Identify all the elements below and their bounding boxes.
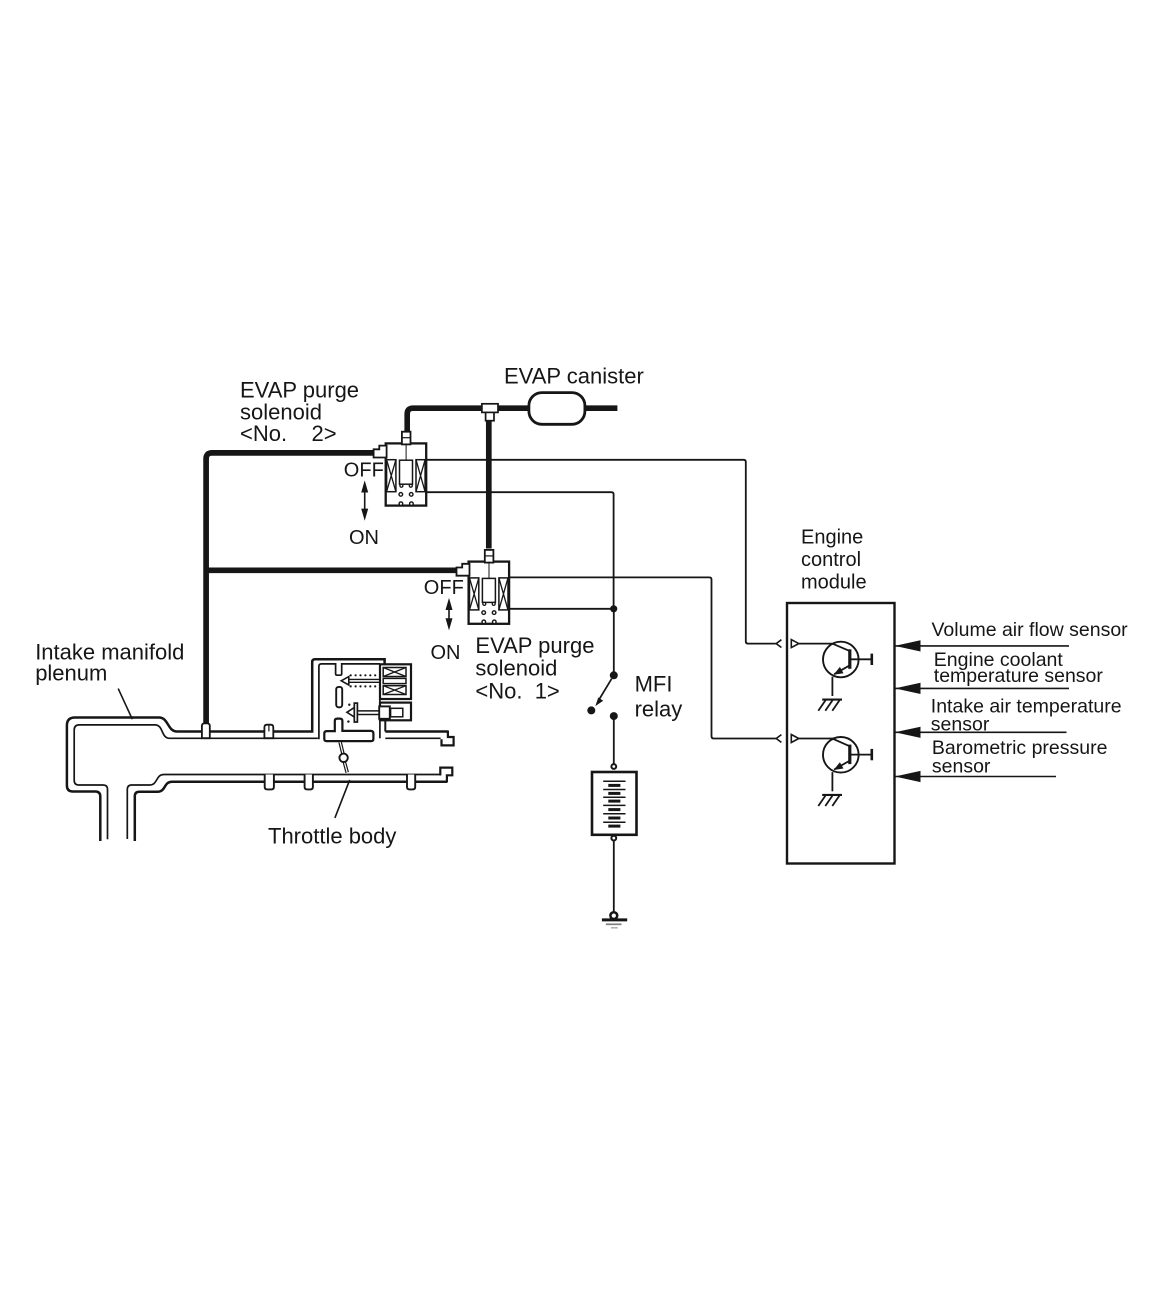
svg-text:ON: ON <box>349 527 379 549</box>
label: EVAP purge solenoid No.1 <box>475 633 594 704</box>
svg-text:Engine: Engine <box>801 527 863 549</box>
OFF/ON double arrow (solenoid No.2) <box>361 480 368 520</box>
ground (Q1 emitter) <box>818 700 842 711</box>
label: Engine coolant temperature sensor <box>934 649 1104 687</box>
sensor input arrow: Volume air flow sensor <box>895 640 1070 651</box>
wire: solenoid No.1 upper terminal to ECM input 2 <box>509 577 776 738</box>
IAC pintle valve (cone + disc + stem) <box>347 703 380 722</box>
svg-text:plenum: plenum <box>35 660 107 685</box>
manifold nipple (capped, x=269) <box>264 725 273 739</box>
hose: solenoid No.1 port joining vertical hose <box>206 567 457 573</box>
throttle body / IAC housing outer wall <box>312 659 384 733</box>
wire: solenoid No.1 lower terminal to junction node <box>509 608 613 610</box>
svg-text:Volume air flow sensor: Volume air flow sensor <box>932 619 1129 641</box>
transistor Q2 (lower driver) <box>799 737 872 791</box>
svg-text:OFF: OFF <box>424 577 464 599</box>
intake manifold plenum outer wall (top/left/floor) and duct outer top wall <box>67 718 454 842</box>
manifold nipple (hose connection, x=206) <box>202 723 210 738</box>
hose: solenoid No.2 port to manifold nipple (down at x=206) <box>206 453 375 723</box>
IAC motor lower block <box>379 703 411 721</box>
leader line: Intake manifold plenum <box>118 689 132 720</box>
svg-text:temperature sensor: temperature sensor <box>934 665 1104 687</box>
ground (Q2 emitter) <box>818 795 842 806</box>
label: MFI relay <box>635 671 683 721</box>
label: Intake air temperature sensor <box>931 696 1122 736</box>
plenum inner wall (top/left/floor) and duct inner top wall <box>74 725 318 839</box>
svg-text:module: module <box>801 572 867 594</box>
duct top wall right of throttle housing <box>385 730 448 733</box>
bypass passage dotted flow lines (upper) <box>347 674 376 723</box>
sensor input arrow: Barometric pressure sensor <box>895 771 1057 782</box>
junction node (dot) <box>610 605 617 612</box>
MFI relay coil (hatched box with terminals) <box>592 764 637 840</box>
connector chevron (input 1) <box>776 640 781 648</box>
throttle bore T-island (shaft boss) <box>324 719 373 742</box>
svg-text:EVAP purge: EVAP purge <box>475 633 594 658</box>
duct upper-right end hook <box>442 731 454 746</box>
svg-text:relay: relay <box>635 697 683 722</box>
svg-text:EVAP canister: EVAP canister <box>504 363 644 388</box>
hose: canister T-drop down to solenoid No.1 nozzle <box>486 410 492 549</box>
svg-text:MFI: MFI <box>635 671 673 696</box>
IAC stepper motor coil block <box>380 664 411 699</box>
svg-text:OFF: OFF <box>344 460 384 482</box>
connector triangle (input 2, inside ECM) <box>791 735 799 743</box>
svg-text:Throttle body: Throttle body <box>268 823 396 848</box>
housing inner right wall segments <box>380 664 385 738</box>
throttle body housing inner wall with hanging baffle <box>319 664 380 739</box>
transistor Q1 (upper driver) <box>799 642 872 696</box>
T-fitting on canister hose <box>482 404 498 421</box>
label: Barometric pressure sensor <box>932 737 1108 778</box>
runner inner-right wall and duct bottom inner wall <box>127 775 440 840</box>
sensor input arrow: Intake air temperature sensor <box>895 727 1067 738</box>
connector triangle (input 1, inside ECM) <box>791 640 799 648</box>
throttle plate (blade + shaft circle) <box>339 742 347 772</box>
leader line: Throttle body <box>335 780 350 818</box>
svg-text:<No. 1>: <No. 1> <box>475 679 559 704</box>
runner outer-right wall and duct bottom outer wall <box>135 782 447 841</box>
vertical slot baffle <box>336 687 342 707</box>
svg-text:control: control <box>801 549 861 571</box>
Engine control module box U1 <box>787 603 895 864</box>
OFF/ON double arrow (solenoid No.1) <box>446 598 453 631</box>
sensor input arrow: Engine coolant temperature sensor <box>895 683 1070 694</box>
bypass air flow arrow (hollow, pointing left) <box>341 677 380 685</box>
wire: relay coil to ground <box>613 841 615 912</box>
svg-text:ON: ON <box>431 642 461 664</box>
hose: canister main line with left elbow down to solenoid No.2 nozzle <box>407 408 617 432</box>
wire: switch to relay coil <box>613 716 615 764</box>
label: Intake manifold plenum <box>35 639 184 685</box>
svg-text:sensor: sensor <box>932 756 991 778</box>
EVAP canister body <box>529 393 585 425</box>
duct lower-right end hook <box>440 768 452 783</box>
wire: solenoid No.2 upper terminal to ECM input 1 <box>426 460 776 644</box>
wire: junction node down to MFI relay switch <box>613 609 615 672</box>
ground (MFI relay circuit) <box>602 912 627 928</box>
EVAP purge solenoid No.1 (valve symbol) <box>457 550 510 624</box>
svg-text:solenoid: solenoid <box>475 656 557 681</box>
EVAP purge solenoid No.2 (valve symbol) <box>374 432 427 506</box>
throttle body bottom wall port stubs <box>265 775 416 790</box>
wire: solenoid No.2 lower terminal down to junction node <box>426 492 613 609</box>
svg-text:EVAP purge: EVAP purge <box>240 377 359 402</box>
MFI relay switch (contacts and blade) <box>587 671 618 720</box>
label: Engine control module <box>801 527 867 594</box>
label: EVAP purge solenoid No.2 <box>240 377 359 446</box>
svg-text:<No. 2>: <No. 2> <box>240 421 337 446</box>
connector chevron (input 2) <box>776 735 781 743</box>
